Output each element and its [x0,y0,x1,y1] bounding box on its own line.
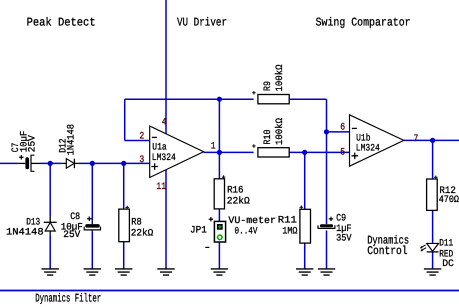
node main-R8 junction [121,161,126,166]
ground below R11 [296,269,313,275]
svg-text:0..4V: 0..4V [235,225,258,236]
svg-text:470Ω: 470Ω [439,194,459,205]
resistor R8 labels [131,216,154,238]
wire D12 to U1a pin3 [79,162,150,164]
TITLES [27,16,411,306]
wire R16 to JP1 [218,209,220,222]
resistor R16 [214,175,225,209]
svg-text:6: 6 [340,121,345,132]
wire bottom frame separator [0,290,459,292]
capacitor C9 labels [336,212,352,243]
svg-text:1N4148: 1N4148 [6,227,44,238]
wire C9 to ground [326,230,328,269]
svg-text:JP1: JP1 [190,224,207,235]
svg-text:R16: R16 [227,184,244,195]
wire C8 to ground [91,231,93,269]
LED D11 [420,243,439,252]
resistor R12 labels [439,185,459,205]
wire U1b output [404,139,459,141]
wire U1a pin11 power to ground [165,170,167,269]
svg-text:7: 7 [414,133,419,144]
wire node to R8 [123,163,125,209]
ground below C9 [318,269,335,275]
diode D13 labels [6,216,44,237]
svg-text:4: 4 [162,116,167,127]
capacitor C7 [19,155,34,172]
svg-text:3: 3 [139,154,144,165]
svg-text:100kΩ: 100kΩ [274,64,285,91]
wire C7 to D12 [41,162,62,164]
wire R12 to D11 [432,210,434,243]
svg-text:LM324: LM324 [356,143,380,154]
wire JP1 to ground [218,242,220,269]
wire R10 right to U1b pin5 [289,151,349,153]
svg-text:1N4148: 1N4148 [65,124,76,156]
wire corner down to C9 [326,99,328,224]
wire main input segment left [0,162,18,164]
wire U1a pin4 power [165,0,167,134]
svg-text:35V: 35V [336,232,352,243]
svg-text:LM324: LM324 [152,152,176,163]
wire feedback vertical left [124,99,126,140]
jumper JP1 [205,217,225,247]
diode D13 [44,222,57,231]
capacitor C8 labels [61,211,83,240]
svg-text:11: 11 [156,181,166,192]
GROUND SYMBOLS [42,269,442,275]
op-amp U1a [150,126,204,178]
op-amp U1b [350,115,404,166]
LED D11 labels [439,238,454,269]
svg-text:2: 2 [139,131,144,142]
wire feedback top run [125,98,254,100]
svg-text:22kΩ: 22kΩ [227,196,250,207]
resistor R9 labels [262,64,285,91]
svg-text:25V: 25V [27,135,38,152]
svg-text:5: 5 [340,146,345,157]
wire U1a pin2 stub [125,140,150,142]
wire D11 to ground [432,252,434,269]
svg-text:R8: R8 [131,216,142,227]
node output-R16 junction [217,150,222,155]
node VU-meter annotation [228,215,276,236]
resistor R11 [300,206,311,244]
ground below D13 [42,269,59,275]
resistor R11 labels [278,215,298,237]
resistor R9 [252,91,289,104]
ground below U1a pin11 [157,269,174,275]
BLACK LEAD STUBS [18,163,92,234]
ground below JP1 [211,269,228,275]
node main-C8 junction [90,161,95,166]
capacitor C7 labels [10,131,37,153]
wire R8 to ground [123,242,125,269]
svg-text:D11: D11 [439,238,453,249]
svg-text:100kΩ: 100kΩ [274,118,285,145]
wire R11 to ground [304,243,306,269]
node Dynamics Control annotation [367,233,409,258]
node U1b output junction [430,138,435,143]
capacitor C9 [318,217,336,229]
op-amp U1a pin numbers [139,116,215,192]
node pin6 junction [324,129,329,134]
op-amp U1b pin numbers [340,121,418,157]
svg-text:DC: DC [442,258,454,269]
svg-text:Dynamics Filter: Dynamics Filter [35,291,101,305]
svg-text:C8: C8 [70,211,80,222]
wire node to R16 [218,152,220,178]
svg-text:25V: 25V [63,229,80,240]
wire U1a output to R10 [204,151,254,153]
svg-text:Peak Detect: Peak Detect [27,16,96,30]
node output-R11 junction [302,150,307,155]
wire node to C8 [91,163,93,220]
resistor R12 [427,176,438,211]
resistor R10 [252,144,289,157]
wire U1b pin6 stub [327,131,350,133]
svg-text:Control: Control [367,244,407,258]
ground below R8 [115,269,132,275]
resistor R10 labels [262,118,285,145]
JUNCTION DOTS [48,97,436,166]
svg-text:22kΩ: 22kΩ [131,228,154,239]
svg-text:R11: R11 [278,215,297,226]
node feedback-R16 junction top [217,97,222,102]
node main-D13 junction [48,161,53,166]
svg-text:1: 1 [211,140,216,151]
resistor R8 [119,206,130,242]
ground below C8 [84,269,101,275]
svg-text:C9: C9 [336,212,346,223]
svg-text:1MΩ: 1MΩ [282,225,297,236]
wire node to D13 [49,163,51,216]
wire R9 right to corner [289,98,326,100]
wire feedback drop to output [218,99,220,152]
svg-text:VU Driver: VU Driver [177,16,227,30]
ground below D11 [424,269,441,275]
wire D13 to ground [49,234,51,269]
wire node to R11 [304,152,306,209]
svg-text:R9: R9 [262,81,273,91]
diode D12 [66,159,74,169]
capacitor C8 [84,217,101,230]
resistor R16 labels [227,184,250,206]
diode D12 labels [57,124,76,156]
wire node to R12 [432,140,434,179]
svg-text:Swing Comparator: Swing Comparator [316,16,411,30]
svg-text:R10: R10 [262,129,273,144]
